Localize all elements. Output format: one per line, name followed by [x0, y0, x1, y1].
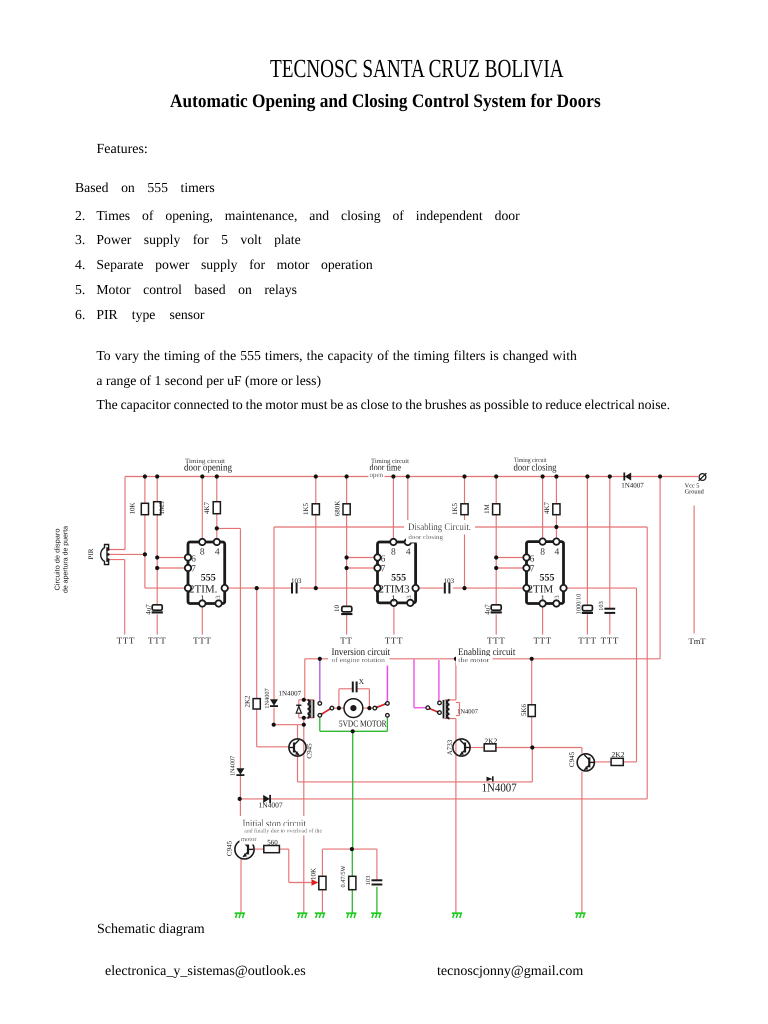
svg-text:555: 555 — [201, 573, 216, 584]
svg-text:1N4007: 1N4007 — [457, 709, 479, 716]
svg-text:TTT: TTT — [578, 636, 596, 646]
svg-text:door opening: door opening — [184, 462, 232, 473]
svg-text:the motor: the motor — [458, 657, 490, 664]
svg-text:3: 3 — [406, 595, 413, 598]
svg-text:8: 8 — [200, 548, 205, 558]
svg-text:7: 7 — [530, 565, 535, 575]
svg-text:8: 8 — [540, 548, 545, 558]
svg-text:TTT: TTT — [601, 636, 619, 646]
svg-text:103: 103 — [444, 577, 455, 585]
svg-text:TTT: TTT — [487, 636, 505, 646]
svg-text:555: 555 — [391, 573, 406, 584]
svg-text:C945: C945 — [306, 743, 314, 759]
svg-text:1N4007: 1N4007 — [279, 690, 302, 698]
svg-text:1N4007: 1N4007 — [229, 756, 236, 776]
svg-text:3: 3 — [554, 595, 561, 598]
svg-text:680K: 680K — [334, 501, 342, 517]
svg-text:1N4007: 1N4007 — [621, 482, 644, 490]
svg-text:TTT: TTT — [148, 636, 166, 646]
svg-text:8: 8 — [391, 548, 396, 558]
svg-text:5K6: 5K6 — [520, 703, 528, 716]
svg-text:Circuito de disparo: Circuito de disparo — [54, 528, 62, 590]
svg-text:Disabling Circuit.: Disabling Circuit. — [408, 522, 471, 533]
svg-text:1N4007: 1N4007 — [482, 781, 517, 795]
svg-text:4: 4 — [555, 548, 560, 558]
svg-text:2K2: 2K2 — [244, 695, 252, 708]
svg-text:4K7: 4K7 — [203, 501, 211, 514]
svg-text:PIR: PIR — [87, 548, 95, 559]
svg-text:1K5: 1K5 — [451, 502, 459, 515]
svg-text:103: 103 — [365, 876, 372, 885]
svg-text:and finally due to overload of: and finally due to overload of the — [244, 827, 322, 834]
svg-text:de apertura de puerta: de apertura de puerta — [62, 526, 70, 593]
svg-text:6: 6 — [530, 555, 535, 565]
svg-text:1M5: 1M5 — [158, 501, 166, 515]
svg-text:1K5: 1K5 — [302, 502, 310, 515]
svg-text:10: 10 — [333, 605, 341, 613]
svg-text:1: 1 — [540, 595, 545, 605]
svg-text:5VDC MOTOR: 5VDC MOTOR — [339, 718, 387, 728]
svg-text:1N4007: 1N4007 — [264, 688, 271, 708]
svg-text:C945: C945 — [568, 751, 576, 767]
svg-text:1: 1 — [200, 595, 205, 605]
svg-text:motor: motor — [241, 836, 258, 843]
svg-text:TTT: TTT — [193, 636, 211, 646]
svg-text:1M: 1M — [483, 503, 491, 514]
svg-text:4: 4 — [215, 548, 220, 558]
svg-text:X: X — [359, 677, 365, 686]
svg-text:103: 103 — [598, 601, 605, 610]
svg-text:7: 7 — [381, 565, 386, 575]
svg-text:4K7: 4K7 — [543, 501, 551, 514]
svg-text:6: 6 — [191, 555, 196, 565]
svg-text:10K: 10K — [129, 502, 137, 514]
svg-text:open: open — [370, 471, 384, 479]
svg-text:10K: 10K — [309, 868, 317, 880]
svg-text:TT: TT — [340, 636, 352, 646]
svg-text:of engine rotation: of engine rotation — [332, 657, 386, 664]
svg-text:TmT: TmT — [689, 636, 707, 646]
svg-text:TTT: TTT — [533, 636, 551, 646]
svg-text:2K2: 2K2 — [484, 736, 497, 745]
svg-text:6: 6 — [381, 555, 386, 565]
svg-text:4u7: 4u7 — [484, 604, 492, 615]
svg-text:TTT: TTT — [117, 636, 135, 646]
svg-text:C945: C945 — [226, 840, 234, 856]
svg-text:560: 560 — [267, 838, 278, 846]
svg-text:7: 7 — [191, 565, 196, 575]
svg-text:1N4007: 1N4007 — [259, 801, 283, 810]
svg-text:0.47/5W: 0.47/5W — [340, 866, 347, 888]
svg-text:Ground: Ground — [685, 488, 705, 495]
svg-text:A733: A733 — [446, 739, 454, 755]
svg-text:1: 1 — [391, 595, 396, 605]
svg-text:2K2: 2K2 — [612, 750, 625, 759]
svg-text:door closing: door closing — [408, 534, 444, 541]
svg-text:4: 4 — [406, 548, 411, 558]
svg-text:door closing: door closing — [514, 462, 557, 473]
svg-text:555: 555 — [540, 573, 555, 584]
svg-text:3: 3 — [215, 595, 222, 598]
svg-text:TTT: TTT — [385, 636, 403, 646]
svg-text:1000/10: 1000/10 — [575, 594, 582, 615]
svg-text:4u7: 4u7 — [145, 604, 153, 615]
svg-text:103: 103 — [291, 577, 302, 585]
